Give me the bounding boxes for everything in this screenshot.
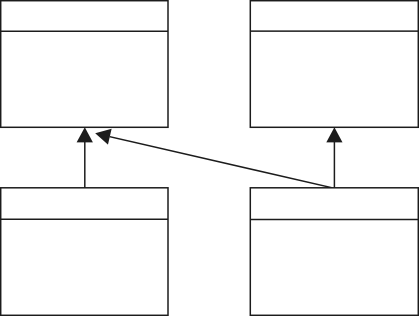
class box A (top-left) <box>1 1 168 128</box>
class box D (bottom-right) <box>250 188 418 315</box>
generalization arrow D to A : diagonal wire <box>110 137 332 188</box>
arrowhead D to B <box>326 127 342 142</box>
arrowhead C to A <box>77 127 93 142</box>
arrowhead D to A (diagonal) <box>95 129 111 145</box>
generalization arrow C to A : wire <box>84 142 86 188</box>
class box B (top-right) <box>250 1 418 128</box>
class box C (bottom-left) <box>1 188 168 315</box>
generalization arrow D to B : wire <box>333 142 335 188</box>
